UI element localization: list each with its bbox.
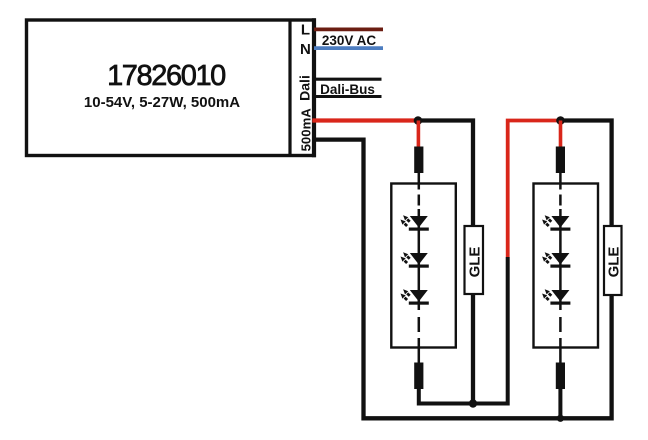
wire resistor R4 down to bottom rail	[558, 388, 562, 418]
pin label 500mA	[299, 108, 314, 152]
wire Dali bus lower	[314, 95, 382, 98]
LED D1	[401, 215, 429, 230]
node J2 junction dot	[556, 116, 565, 125]
net label Dali-Bus	[320, 82, 375, 97]
pin label L	[301, 22, 310, 39]
wire red riser up to module 2 feed	[508, 121, 561, 258]
wire 500mA return black: driver down to bottom rail, along bottom, up to GLE U2 bottom	[314, 140, 612, 419]
svg-text:Dali: Dali	[297, 75, 313, 101]
LED D4	[542, 215, 570, 230]
LED D3	[401, 289, 429, 304]
svg-text:500mA: 500mA	[299, 108, 314, 152]
value label 17826010	[107, 60, 225, 92]
value label ratings 10-54V, 5-27W, 500mA	[84, 94, 240, 111]
resistor R1	[414, 147, 423, 174]
svg-text:GLE: GLE	[467, 247, 484, 278]
node J1 junction dot	[414, 116, 423, 125]
node module 1 bottom junction with GLE U1	[469, 399, 477, 407]
driver box U0 outline	[27, 18, 315, 157]
resistor R2	[414, 363, 423, 390]
wire module 1 bottom: R2 down, right, and riser black part up	[419, 257, 508, 404]
wire dashed resistor R3 to LED D4	[559, 173, 562, 217]
svg-text:230V AC: 230V AC	[322, 33, 377, 48]
resistor R4	[556, 363, 565, 390]
LED module 2 box	[534, 184, 599, 348]
wire LED string module 1	[418, 216, 421, 304]
resistor R3	[556, 147, 565, 174]
wire dashed resistor R1 to LED D1	[418, 173, 421, 217]
node module 2 bottom junction on rail	[557, 415, 564, 422]
wire L mains live (maroon)	[314, 27, 383, 31]
net label 230V AC	[322, 33, 377, 48]
svg-text:L: L	[301, 22, 310, 39]
wire 500mA+ red feed from driver to node J1	[312, 118, 418, 122]
svg-text:17826010: 17826010	[107, 60, 225, 92]
svg-text:10-54V, 5-27W, 500mA: 10-54V, 5-27W, 500mA	[84, 94, 240, 111]
LED D6	[542, 289, 570, 304]
wire black from node J1 right and down to GLE U1 top	[418, 121, 473, 226]
LED D5	[542, 252, 570, 267]
pin label Dali	[297, 75, 313, 101]
svg-text:N: N	[300, 41, 311, 58]
wire GLE U1 bottom to module 1 bottom wire	[471, 295, 475, 404]
wire dashed LED D3 to resistor R2	[418, 304, 421, 364]
LED module 1 box	[391, 184, 456, 348]
LED D2	[401, 252, 429, 267]
svg-text:GLE: GLE	[606, 247, 623, 278]
pin label N	[300, 41, 311, 58]
wire N mains neutral (blue)	[314, 46, 383, 50]
svg-text:Dali-Bus: Dali-Bus	[320, 82, 375, 97]
wire LED string module 2	[559, 216, 562, 304]
wire red node J2 down to resistor R3	[559, 121, 563, 149]
GLE U1	[465, 226, 484, 294]
wire black from node J2 right and down to GLE U2 top	[561, 121, 612, 227]
wire dashed LED D6 to resistor R4	[559, 304, 562, 364]
terminal strip divider	[288, 20, 291, 156]
wire red node J1 down to resistor R1	[417, 121, 421, 149]
GLE U2	[604, 226, 623, 295]
wire Dali bus upper	[314, 78, 382, 81]
